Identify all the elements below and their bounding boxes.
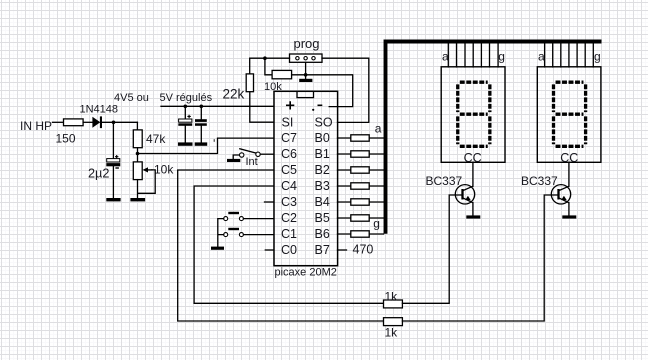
svg-text:C0: C0 [281,243,297,257]
ground Q1 [466,215,480,218]
resistor array 470: B2 [338,169,384,171]
svg-text:5V régulés: 5V régulés [160,92,213,104]
stray tick [214,139,215,142]
resistor array 470: B5 [338,217,384,219]
wire C4 to 1k (top) [194,186,383,303]
wire buttons common to ground [218,219,224,247]
resistor 10k (serial) [272,70,292,78]
svg-text:1k: 1k [385,290,399,304]
svg-text:B4: B4 [315,195,330,209]
ground under prog [299,79,312,82]
seven segment digit 1 [458,82,490,146]
svg-text:C4: C4 [281,179,297,193]
resistor 47k [133,130,142,148]
ground Q2 [562,215,576,218]
svg-text:a: a [375,121,382,135]
svg-text:SI: SI [282,115,294,129]
svg-text:IN HP: IN HP [20,119,52,133]
connector prog [290,54,323,62]
wire node to C7 pin [138,138,274,153]
resistor 1k (bottom) [384,318,403,326]
svg-text:B3: B3 [315,179,330,193]
svg-text:a: a [442,49,449,63]
svg-text:B6: B6 [315,227,330,241]
transistor Q2 [551,162,570,215]
svg-text:B2: B2 [315,163,330,177]
wire pot to ground [137,180,139,199]
ground under C2 [195,142,208,145]
wire 47k to pot [137,148,139,162]
svg-text:2µ2: 2µ2 [88,166,109,180]
svg-text:BC337: BC337 [426,174,463,188]
node junction cap1 [184,105,188,109]
svg-text:C3: C3 [281,195,297,209]
wire prog center to ground [305,62,307,79]
pin stub C3 [265,201,274,203]
node junction prog/10k [263,56,267,60]
svg-text:1N4148: 1N4148 [80,103,119,115]
svg-text:470: 470 [353,242,374,256]
svg-text:22k: 22k [223,87,245,102]
diode 1N4148 [92,117,100,128]
wire down to capacitor C 2u2 [112,122,114,158]
resistor array 470: B4 [338,201,384,203]
svg-text:4V5 ou: 4V5 ou [114,92,149,104]
svg-text:C7: C7 [281,131,297,145]
svg-text:Int: Int [246,156,258,168]
wire prog left to 22k [250,58,290,74]
node junction cap2 [200,105,204,109]
wire prog right to SO [322,58,369,122]
pin stub C0 [265,249,273,251]
pushbutton S1 [224,217,228,221]
svg-text:47k: 47k [146,132,166,146]
notch on IC [297,91,314,97]
svg-text:g: g [373,216,380,230]
svg-text:1k: 1k [385,325,399,339]
ground buttons [211,247,224,250]
wire supply rail to + pin [161,105,274,107]
wire R150 to D1 [83,121,92,123]
svg-text:C2: C2 [281,211,297,225]
svg-text:SO: SO [315,115,333,129]
resistor array 470: B6 [338,233,384,235]
svg-text:10k: 10k [154,162,174,176]
wire 10k to minus pin [292,75,353,107]
pin - symbol [318,104,323,106]
node junction 47k/10k [136,152,140,156]
svg-text:a: a [538,49,545,63]
svg-text:BC337: BC337 [521,174,558,188]
pin stub B7 [338,249,347,251]
pot wiper arrow [147,169,152,171]
capacitor 2u2 (electrolytic) [107,159,120,162]
DIS2 pin stubs [545,43,594,67]
ground under pot [130,198,145,201]
op IC picaxe 20M2 box [274,91,338,265]
wire 22k to SI [250,92,274,123]
wire down into 47k [136,122,138,130]
svg-text:C1: C1 [281,227,297,241]
potentiometer 10k body [133,162,142,180]
wire diode to 47k corner [102,121,137,123]
ground int [227,159,240,162]
wire 1k top to Q1 base [402,195,461,303]
capacitor C2 [200,106,202,142]
node junction after diode [112,121,116,125]
svg-text:150: 150 [56,132,76,146]
svg-text:g: g [498,50,505,64]
svg-text:B7: B7 [315,243,330,257]
pin + symbol [286,101,294,109]
node junction prog ground [304,73,308,77]
wire junction down to 10k [265,58,272,75]
wire S2 to C1 [244,234,274,236]
svg-text:picaxe 20M2: picaxe 20M2 [275,267,337,279]
ground under C1 [178,142,193,145]
svg-text:B0: B0 [315,131,330,145]
transistor Q1 [455,162,474,215]
svg-text:g: g [594,50,601,64]
resistor 1k (top) [384,300,403,308]
ground under 2u2 [106,198,120,201]
wire int to ground [233,155,239,159]
wire cap to ground [112,166,114,198]
svg-text:B5: B5 [315,211,330,225]
capacitor C1 (polarized) [184,106,186,142]
resistor array 470: B1 [338,153,384,155]
svg-text:prog: prog [294,36,320,51]
bus wire (thick) [386,42,602,234]
resistor array 470: B0 [338,137,384,139]
seven segment digit 2 [554,82,586,146]
svg-text:B1: B1 [315,147,330,161]
wire S1 to C2 [244,218,274,220]
switch int [240,153,244,157]
display DIS2 box [537,67,601,163]
wire C5 to 1k (bottom) [178,170,384,321]
DIS1 pin stubs [448,43,498,67]
wire IN HP to R 150 [53,121,64,123]
pushbutton S2 [224,233,228,237]
display DIS1 box [441,67,505,163]
resistor array 470: B3 [338,185,384,187]
wire wiper loop to bottom [138,170,156,193]
resistor 150 [64,119,84,126]
svg-text:C6: C6 [281,147,297,161]
svg-text:C5: C5 [281,163,297,177]
wire int to C6 [260,153,273,155]
wire 1k bottom to Q2 base [402,195,557,321]
resistor 22k [246,74,253,92]
